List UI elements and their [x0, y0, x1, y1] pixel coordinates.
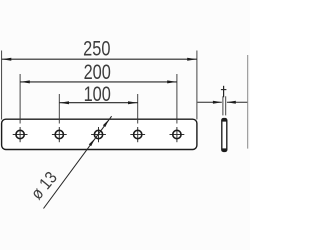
thickness dim line right segment	[227, 101, 248, 103]
leader arrow at plate top edge	[103, 119, 109, 127]
side view top cap	[222, 119, 227, 122]
hole H3	[94, 130, 102, 138]
thickness dim line left segment	[197, 101, 221, 103]
hole H2	[55, 130, 63, 138]
svg-text:100: 100	[84, 83, 111, 107]
side view bottom cap	[222, 148, 227, 151]
leader line for hole diameter	[44, 116, 112, 208]
side extension line right	[225, 96, 227, 115]
dimension line 250	[2, 58, 197, 60]
arrow dim100 left	[60, 101, 70, 104]
extension line right of dim 100	[137, 94, 139, 124]
hole H4 crosshair	[130, 127, 145, 142]
arrow dim250 left	[2, 58, 12, 61]
thickness arrow left	[213, 101, 222, 104]
hole H1 crosshair	[13, 127, 28, 142]
arrow dim200 left	[20, 80, 30, 83]
arrow dim200 right	[167, 80, 177, 83]
hole H4	[134, 130, 142, 138]
extension line right of dim 250	[196, 51, 198, 120]
extension line left of dim 250	[1, 51, 3, 120]
plate front view outline	[2, 119, 197, 149]
extension line left of dim 200	[19, 74, 21, 124]
right margin reference line	[247, 55, 249, 149]
hole H1	[16, 130, 24, 138]
side extension line left	[222, 96, 224, 115]
leader arrow at hole edge	[89, 138, 95, 146]
dimension line 100	[59, 102, 137, 104]
dimension line 200	[20, 81, 177, 83]
thickness symbol t	[221, 86, 227, 98]
hole H2 crosshair	[52, 127, 67, 142]
thickness arrow right	[227, 101, 236, 104]
extension line right of dim 200	[176, 74, 178, 124]
arrow dim100 right	[128, 101, 138, 104]
hole H3 crosshair	[91, 127, 106, 142]
svg-text:200: 200	[84, 61, 111, 85]
arrow dim250 right	[187, 58, 197, 61]
hole H5 crosshair	[170, 127, 185, 142]
svg-text:250: 250	[83, 37, 110, 61]
side view bar	[222, 119, 227, 152]
extension line left of dim 100	[58, 94, 60, 124]
hole H5	[173, 130, 181, 138]
